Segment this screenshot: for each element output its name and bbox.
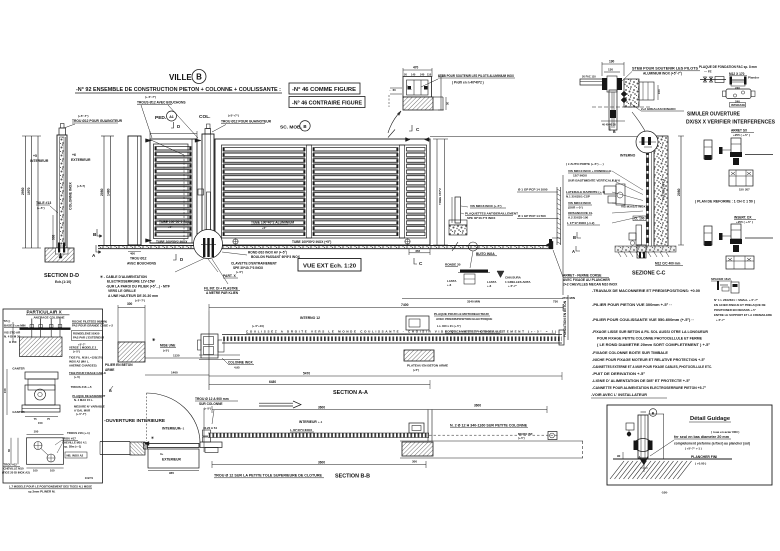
svg-text:ALUMINIUM INOX (+5°-7°): ALUMINIUM INOX (+5°-7°) [643,72,682,76]
svg-text:✳ - CABLE D'ALIMENTATION: ✳ - CABLE D'ALIMENTATION [100,275,147,279]
gate end stop at ground [549,239,552,249]
svg-text:(+-5): (+-5) [74,375,80,379]
svg-text:TROUS #16 (+-1): TROUS #16 (+-1) [67,431,90,435]
gate left post [128,136,141,245]
svg-text:3600: 3600 [318,406,325,410]
svg-text:100: 100 [33,469,38,473]
svg-text:+-1: +-1 [318,420,323,424]
svg-text:3+: 3+ [160,452,164,456]
svg-text:SEZIONE C-C: SEZIONE C-C [632,271,666,277]
section D-D dimension lines left [25,136,27,248]
vertical dim right of details [562,175,564,295]
svg-text:190: 190 [609,60,615,64]
svg-text:60: 60 [7,449,11,452]
top detail hatched base [403,97,433,110]
svg-text:M12 C/C 400 mm: M12 C/C 400 mm [655,262,680,266]
svg-text:COLONNE INOX: COLONNE INOX [228,361,253,365]
svg-text:7400: 7400 [401,303,409,307]
svg-text:( L'AUTO PORTE (+-5°) ... ): ( L'AUTO PORTE (+-5°) ... ) [566,162,604,166]
svg-text:100: 100 [34,430,39,434]
ground line [613,458,732,460]
svg-text:240: 240 [735,86,740,90]
section AA top dim [209,307,563,309]
section D-D foundation hatched [45,248,74,262]
top right detail dims [602,63,624,65]
door top extension lines [149,131,151,139]
svg-text:+5°: +5° [262,226,266,230]
svg-text:-OUVERTURE INTERIEURE: -OUVERTURE INTERIEURE [104,418,165,423]
svg-text:N.1 25X25/1-CSP: N.1 25X25/1-CSP [566,195,590,199]
BB top dim [212,409,547,411]
CC ground [615,246,676,252]
right dim CC [680,136,682,245]
svg-text:PLATEAU EN BETON ARME: PLATEAU EN BETON ARME [407,364,448,368]
curved leader down to section CC [632,112,645,131]
svg-text:908: 908 [52,234,56,240]
left bracket [626,423,634,430]
ground hatch [610,461,624,479]
svg-text:TUBE 100*50*2 INOX: TUBE 100*50*2 INOX [156,240,188,244]
svg-text:(+-5°): (+-5°) [518,436,525,440]
svg-text:T.P.(-): T.P.(-) [4,319,11,323]
svg-text:730: 730 [553,300,558,304]
svg-text:INTERIEUR: INTERIEUR [299,420,317,424]
svg-text:(SUR +-5°): (SUR +-5°) [568,206,583,210]
svg-text:TROU Ø 12 A 900 mm: TROU Ø 12 A 900 mm [195,397,229,401]
svg-text:1460: 1460 [171,371,178,375]
svg-text:VERS LE GRILLE: VERS LE GRILLE [108,289,137,293]
svg-text:AVEC PREDISPOSITION ELECTRIQUE: AVEC PREDISPOSITION ELECTRIQUE [436,317,492,321]
column inner tube [207,192,211,242]
svg-text:(+-5°): (+-5°) [236,270,243,274]
svg-text:+-5°-7°: +-5°-7° [508,284,517,288]
BB door section below [148,449,199,468]
svg-text:100: 100 [50,469,55,473]
svg-text:B: B [303,124,306,129]
svg-text:-N° 46 COMME FIGURE: -N° 46 COMME FIGURE [292,87,357,93]
svg-text:+-6: +-6 [487,284,492,288]
top right detail T posts [602,78,607,90]
svg-text:STEB POUR SOUTENIR LES PILOTS: STEB POUR SOUTENIR LES PILOTS ALUMINIUM … [438,74,515,78]
svg-text:TUBE 100*40*2 ALUMINIUM: TUBE 100*40*2 ALUMINIUM [251,221,294,225]
BB hatched footing [402,442,433,456]
svg-text:965: 965 [169,471,174,475]
bolt symbol [700,79,726,81]
svg-text:(+5°-7°): (+5°-7°) [135,298,145,302]
top detail bracket [403,77,432,98]
svg-text:ENTRE LE SUPPORT ET LA CREMAIL: ENTRE LE SUPPORT ET LA CREMAILERE [714,313,772,317]
svg-text:12/7 INOX: 12/7 INOX [573,174,587,178]
svg-text:BUITO INGA: BUITO INGA [476,252,495,256]
svg-text:( LE ROND DIAMETRE 20mm SORT C: ( LE ROND DIAMETRE 20mm SORT COMPLETEMEN… [597,343,711,347]
svg-text:A1: A1 [169,115,174,119]
svg-text:SPE 30*40-7*3 INOX: SPE 30*40-7*3 INOX [467,216,495,220]
svg-text:TUBE 100*50*2 INOX (+5°): TUBE 100*50*2 INOX (+5°) [292,240,331,244]
svg-text:A: A [572,249,575,254]
svg-text:458: 458 [415,249,420,253]
svg-text:Détail Guidage: Détail Guidage [690,416,730,422]
svg-text:-NICHE POUR FIXAGE MOTEUR ET R: -NICHE POUR FIXAGE MOTEUR ET RELATIVE PR… [592,358,706,362]
anchor concrete hatched [20,337,63,357]
ground line under gate [98,246,553,249]
gate right edge dims [436,139,438,245]
svg-text:40 40 60 30: 40 40 60 30 [602,123,616,127]
section AA right end [559,330,564,345]
svg-text:+-5°-7°: +-5°-7° [716,318,725,322]
svg-text:150: 150 [3,388,7,393]
svg-text:(+5°-7°): (+5°-7°) [78,114,89,118]
svg-text:(+-5°-7°): (+-5°-7°) [76,412,86,416]
svg-text:+255 ( +-5° ): +255 ( +-5° ) [736,220,753,224]
svg-text:150: 150 [739,188,744,192]
svg-text:N. 2 Ø 12 H 340-1160 SUR PETIT: N. 2 Ø 12 H 340-1160 SUR PETITE COLONNE [450,424,527,428]
pedestrian door frame [150,139,197,243]
top detail right dim [440,76,442,110]
svg-text:COL.: COL. [199,114,210,120]
svg-text:(+5°+7°): (+5°+7°) [228,114,239,118]
svg-text:(TIGE 20 DI INOX A2): (TIGE 20 DI INOX A2) [2,471,30,475]
svg-text:-PILIER POUR PIETON VUE 300mm: -PILIER POUR PIETON VUE 300mm +-5° ·· [592,303,672,307]
svg-text:FONDATION EN BETON: FONDATION EN BETON [563,300,567,337]
svg-text:Ø 1 GP PCP 14 1000: Ø 1 GP PCP 14 1000 [518,188,548,192]
svg-text:D: D [177,124,180,129]
sliding gate mullion 2 [400,145,405,238]
svg-text:D: D [180,257,183,262]
bottom dims left [10,438,12,465]
guide post [638,415,648,458]
svg-text:MISE UNE: MISE UNE [160,344,175,348]
svg-text:2080: 2080 [677,188,681,196]
svg-text:AVEC BOUCHONS: AVEC BOUCHONS [127,262,157,266]
door closed position dashed [146,393,148,441]
svg-text:FIL INT. DI + PLASTRE: FIL INT. DI + PLASTRE [204,287,238,291]
svg-text:VIS M8/16 INOX (+-5°): VIS M8/16 INOX (+-5°) [470,204,502,208]
svg-text:-LIGNE D' ALIMENTATION DE DIE': -LIGNE D' ALIMENTATION DE DIE' ET PROTEC… [592,379,691,383]
svg-text:PLAQUETTES ANTIDERAILLEMENT: PLAQUETTES ANTIDERAILLEMENT [465,212,518,216]
svg-text:1/4/7/1: 1/4/7/1 [85,476,94,480]
svg-text:ARME: ARME [105,368,114,372]
CC bottom anchor [637,245,646,258]
fondation en beton rotated [567,295,569,340]
svg-text:VUE EXT Ech. 1:20: VUE EXT Ech. 1:20 [303,264,356,270]
svg-text:A’ DAL MUR: A’ DAL MUR [74,409,90,413]
svg-text:75: 75 [47,417,50,421]
90 dim [622,452,624,459]
svg-text:VILLE: VILLE [169,73,192,82]
svg-text:TALE #13: TALE #13 [36,201,51,205]
svg-text:-TRAVAUX DE MACONNERIE ET PRED: -TRAVAUX DE MACONNERIE ET PREDISPOSITION… [592,289,700,293]
BB left pillar hatched [130,442,145,455]
svg-text:← 60: ← 60 [389,88,396,92]
V guide [639,456,648,464]
svg-text:L.7 MODELE POUR LE POSITIONEM: L.7 MODELE POUR LE POSITIONEMENT DES TIG… [9,485,92,489]
svg-text:DX/SX X VERIFIER INTERFERENCES: DX/SX X VERIFIER INTERFERENCES [686,120,775,126]
svg-text:BASE 2 cm MIN: BASE 2 cm MIN [4,324,26,328]
svg-text:COULISSEZ A DROITE VERS LE MON: COULISSEZ A DROITE VERS LE MONDE COULISS… [246,330,556,334]
svg-text:TROUS #16 +-5: TROUS #16 +-5 [71,385,92,389]
svg-text:PAS POUR GRANDE CUBE +-2: PAS POUR GRANDE CUBE +-2 [72,324,113,328]
svg-text:EN ACIER ZINGUE ET PRELAQUE D: EN ACIER ZINGUE ET PRELAQUE DE [714,303,766,307]
BB left wall lines [100,441,130,443]
svg-text:300: 300 [127,302,133,306]
BB right end bracket [548,432,557,440]
svg-text:4.95: 4.95 [234,366,240,370]
svg-text:( Profil en n 40*40*2 ): ( Profil en n 40*40*2 ) [452,81,484,85]
particulair box border [3,309,103,483]
svg-text:20 FAC 110: 20 FAC 110 [582,75,596,79]
sezione CC wall [654,136,668,246]
svg-text:AVEC FIXAGE AU PLANCHER: AVEC FIXAGE AU PLANCHER [563,278,611,282]
svg-text:1480: 1480 [107,188,111,196]
section AA bottom dims [209,375,562,377]
svg-text:( PLAN DE REFORME : 1 CH C 1 5: ( PLAN DE REFORME : 1 CH C 1 50 ) [695,200,755,204]
svg-text:N. 4 DI M 30: N. 4 DI M 30 [4,335,21,339]
pedestrian door slats [155,147,191,150]
svg-text:GANTER: GANTER [12,367,25,371]
svg-text:1970: 1970 [27,187,31,195]
svg-text:PARTICULAIR X: PARTICULAIR X [27,310,63,315]
svg-text:INTERIEUR: INTERIEUR [162,427,181,431]
circle B dim [649,409,657,417]
svg-text:Ech.(1:10): Ech.(1:10) [55,280,71,284]
svg-text:POUR FIXAGE PETITE COLONNE PHO: POUR FIXAGE PETITE COLONNE PHOTOCELLULE … [597,337,703,341]
BB door leaf [147,444,199,448]
base plate [20,328,71,330]
sliding gate mullion 1 [307,145,312,238]
svg-text:INTERNO 12: INTERNO 12 [300,316,320,320]
svg-text:240: 240 [420,73,425,77]
svg-text:(+-5°+10): (+-5°+10) [252,324,264,328]
svg-text:(+-5°): (+-5°) [37,206,45,210]
middle dims [6,369,8,415]
centerline [592,106,652,108]
svg-text:TROU Ø12: TROU Ø12 [130,257,147,261]
svg-text:-CANNETTE POUR ALIMENTATION EL: -CANNETTE POUR ALIMENTATION ELECTROSERRU… [592,386,707,390]
top right black bolts [621,91,627,97]
bottom dims of top right detail [601,120,625,122]
bracket below [729,170,753,186]
section D-D column cap [59,128,66,135]
door cable dashed line [151,140,184,155]
door swing arc [147,393,201,443]
plateau beton right [404,350,434,361]
svg-text:INTERNO: INTERNO [620,154,636,158]
detail guidage box [607,405,772,485]
svg-text:-PILIER POUR COULISSANTE VUE 5: -PILIER POUR COULISSANTE VUE 550-600mm (… [592,318,694,322]
BB rail [208,433,429,438]
svg-text:-SUR LA PAROI DU PILIER (+5°..: -SUR LA PAROI DU PILIER (+5°...) - MTF [106,284,170,288]
CC ladder dim left [556,187,558,245]
svg-text:L 17*17 INOX (-1.2): L 17*17 INOX (-1.2) [567,221,594,225]
gate bottom bolt circles [233,239,238,244]
svg-text:FACADE IN CA: FACADE IN CA [662,178,666,200]
svg-text:(+5°): (+5°) [413,368,419,372]
motor column assembly [201,334,218,358]
VUE EXT box [298,259,361,272]
svg-text:-FIXAGE COLONNE BOITE SUR TIMB: -FIXAGE COLONNE BOITE SUR TIMBALE [592,351,669,355]
door corner fixing marks [146,139,152,143]
svg-text:+6: +6 [72,153,76,157]
svg-text:TROU Ø 12 SUR LA PETITE TOLE S: TROU Ø 12 SUR LA PETITE TOLE SUPERIEURE … [214,474,323,478]
svg-text:3600: 3600 [318,461,325,465]
svg-text:+-6: +-6 [447,283,452,287]
svg-text:PILIER EN BETON: PILIER EN BETON [105,363,133,367]
svg-text:ARRET SX: ARRET SX [731,129,748,133]
svg-text:3340 MIN: 3340 MIN [467,300,480,304]
svg-text:INSERT. DX: INSERT. DX [734,216,752,220]
svg-text:-CANNETTES EXTERNE ET A MUR PO: -CANNETTES EXTERNE ET A MUR POUR FIXAGE … [592,365,712,369]
small glyph above [717,281,719,290]
CC lower bracket [636,225,642,245]
svg-text:(+5-7): (+5-7) [77,184,85,188]
svg-text:( +0.00 ): ( +0.00 ) [695,462,706,466]
svg-text:completement preforme (a fixer: completement preforme (a fixer) au planc… [674,442,750,446]
svg-text:B: B [613,130,616,134]
svg-text:— FE: — FE [704,70,712,74]
svg-text:sp. 28m (+-1): sp. 28m (+-1) [64,445,81,449]
plate with holes [726,89,751,99]
leader arrow to detail [388,111,401,133]
svg-text:1130: 1130 [173,354,180,358]
anti-derail plate detail [455,197,461,223]
BB bottom dim [212,464,426,466]
svg-text:PART. X: PART. X [223,274,236,278]
svg-text:INTERAXE: INTERAXE [731,103,745,107]
svg-text:110: 110 [427,73,432,77]
sezione CC gate post [646,136,649,252]
leaders from circle detail [175,258,205,272]
svg-text:-PUIT DE DERIVATION +-5°: -PUIT DE DERIVATION +-5° [592,372,646,376]
svg-text:N° 1 L 26X26X1 = SMALL +-5°-7°: N° 1 L 26X26X1 = SMALL +-5°-7° [714,298,759,302]
svg-text:(+-5°): (+-5°) [204,407,211,411]
svg-text:+-1: +-1 [180,427,185,431]
svg-text:(+-5°-7°): (+-5°-7°) [145,95,156,99]
svg-text:SUR BASTIMENTE VERTICALE N°6: SUR BASTIMENTE VERTICALE N°6 [568,179,620,183]
svg-text:POSITIONER EN DEDANS +-5°: POSITIONER EN DEDANS +-5° [714,308,757,312]
svg-text:90: 90 [617,454,621,458]
svg-text:2950: 2950 [21,187,25,195]
svg-text:TROU Ø12 POUR GUAINOTEUR: TROU Ø12 POUR GUAINOTEUR [221,120,272,124]
svg-text:(+-5°): (+-5°) [73,350,80,354]
svg-text:40.20 A 54: 40.20 A 54 [203,426,217,430]
svg-text:-100-: -100- [661,491,668,495]
svg-text:NB. INOX A2: NB. INOX A2 [67,454,84,458]
svg-text:PLAQUE POUR LE MOTOREACTEUR: PLAQUE POUR LE MOTOREACTEUR [434,312,490,316]
svg-text:2+2 CHEVILLES MECAN M10 INOX: 2+2 CHEVILLES MECAN M10 INOX [563,283,618,287]
svg-text:B: B [573,235,576,240]
svg-text:L 40*40*3 INOX: L 40*40*3 INOX [290,428,313,432]
svg-text:SECTION A-A: SECTION A-A [333,390,368,396]
svg-text:TUBE 150*2: TUBE 150*2 [438,188,442,205]
label box N46 contraire figure [289,97,365,108]
svg-text:400: 400 [130,252,135,256]
svg-text:EXTERIEUR: EXTERIEUR [162,458,181,462]
svg-text:SORTE CANNETTES PHOTOCELLULES: SORTE CANNETTES PHOTOCELLULES [445,330,504,334]
svg-text:ARRET - FERME CORSE: ARRET - FERME CORSE [563,274,602,278]
section AA left pillar hatched [118,342,145,362]
svg-text:( +5°-7° +-1 ): ( +5°-7° +-1 ) [685,447,702,451]
svg-text:Plandor: Plandor [748,76,760,80]
svg-text:TROU Ø12 POUR GUAINOTEUR: TROU Ø12 POUR GUAINOTEUR [72,119,123,123]
top right vertical tube [609,90,617,130]
svg-text:TIGE POUR FIXAGE CABLE: TIGE POUR FIXAGE CABLE [69,371,106,375]
wheel [634,439,652,452]
svg-text:PED.: PED. [155,115,166,121]
svg-text:30: 30 [446,102,450,105]
svg-text:L.L 400 x 21 (+-5°): L.L 400 x 21 (+-5°) [437,324,461,328]
svg-text:4700 MIN: 4700 MIN [562,296,575,300]
svg-text:STEB POUR SOUTENIR LES PILOTS: STEB POUR SOUTENIR LES PILOTS [632,67,699,71]
svg-text:A UNE HAUTEUR DE 20-30 mm: A UNE HAUTEUR DE 20-30 mm [108,294,158,298]
svg-text:+5°: +5° [168,225,172,229]
svg-text:3600: 3600 [474,404,481,408]
sliding gate frame [215,139,430,245]
svg-text:140: 140 [411,73,416,77]
svg-text:150: 150 [38,421,43,425]
center column COL [202,134,214,245]
svg-text:130: 130 [608,68,613,72]
section D-D column [57,135,67,248]
top right detail left bar [580,79,603,85]
svg-text:BOULON PASSANT 60*8*3 INOX: BOULON PASSANT 60*8*3 INOX [251,255,301,259]
svg-text:Ø 1 GP PCP 14 500: Ø 1 GP PCP 14 500 [518,214,546,218]
svg-text:VIS M3X1/S INOX: VIS M3X1/S INOX [621,205,646,209]
sliding gate slats [223,148,305,151]
assembly right lower [704,226,712,245]
bracket bottom right [726,256,754,269]
svg-text:-N° 92 ENSEMBLE DE CONSTRUCTIO: -N° 92 ENSEMBLE DE CONSTRUCTION PIETON +… [76,87,281,93]
svg-text:VIS M8/10 INOX + RONDELLE: VIS M8/10 INOX + RONDELLE [568,169,611,173]
elevation left dimension lines [103,136,105,248]
svg-text:-FIXAGE LISSE SUR BETON A FIL: -FIXAGE LISSE SUR BETON A FIL SOL AUSSI … [592,330,709,334]
svg-text:SUR COLONNE: SUR COLONNE [199,402,223,406]
svg-text:SECTION D-D: SECTION D-D [44,273,79,279]
BB big arrow [259,402,293,404]
svg-text:N. 4 MAX 15 L.: N. 4 MAX 15 L. [74,398,93,402]
svg-text:207: 207 [745,188,750,192]
svg-text:VIS M8/10 INOX: VIS M8/10 INOX [568,201,592,205]
svg-text:VERGE 1 MODELE 2: VERGE 1 MODELE 2 [69,346,97,350]
svg-text:A.2 25X25-100: A.2 25X25-100 [568,216,589,220]
CC mid bracket [604,186,616,194]
gate top-right fixing marks [406,138,411,142]
svg-text:TUBE 100*50*2 ALL: TUBE 100*50*2 ALL [159,220,190,224]
svg-text:( roue en acier DIN ): ( roue en acier DIN ) [711,430,739,434]
svg-text:5470: 5470 [303,372,310,376]
svg-text:75: 75 [34,417,37,421]
svg-text:MICRO INT.: MICRO INT. [518,432,533,436]
svg-text:EXTERIEUR: EXTERIEUR [71,158,91,162]
dims pillar to column [145,357,201,359]
svg-text:2080: 2080 [100,188,104,196]
svg-text:CL 100: CL 100 [634,217,645,221]
long line gate top to wall section [430,136,654,138]
svg-text:LATERALE RAPIDITE (+-1): LATERALE RAPIDITE (+-1) [566,190,605,194]
svg-text:(+5°): (+5°) [163,349,169,353]
svg-text:+255 ( +-5° ): +255 ( +-5° ) [733,133,750,137]
svg-text:A METRE PAR KLIEN: A METRE PAR KLIEN [206,291,239,295]
svg-text:2+2 GREALZACIONADO: 2+2 GREALZACIONADO [641,107,676,111]
top detail dimension [403,69,432,71]
svg-text:150: 150 [657,89,661,94]
column lock box [198,189,204,195]
small circle on ground [469,242,478,251]
svg-text:sp.3mm PLINER M.: sp.3mm PLINER M. [28,490,56,494]
BB right pillar plan [409,423,424,433]
svg-text:B: B [196,73,202,82]
detail circle at column base [194,230,223,259]
svg-text:GANTER: GANTER [12,410,25,414]
